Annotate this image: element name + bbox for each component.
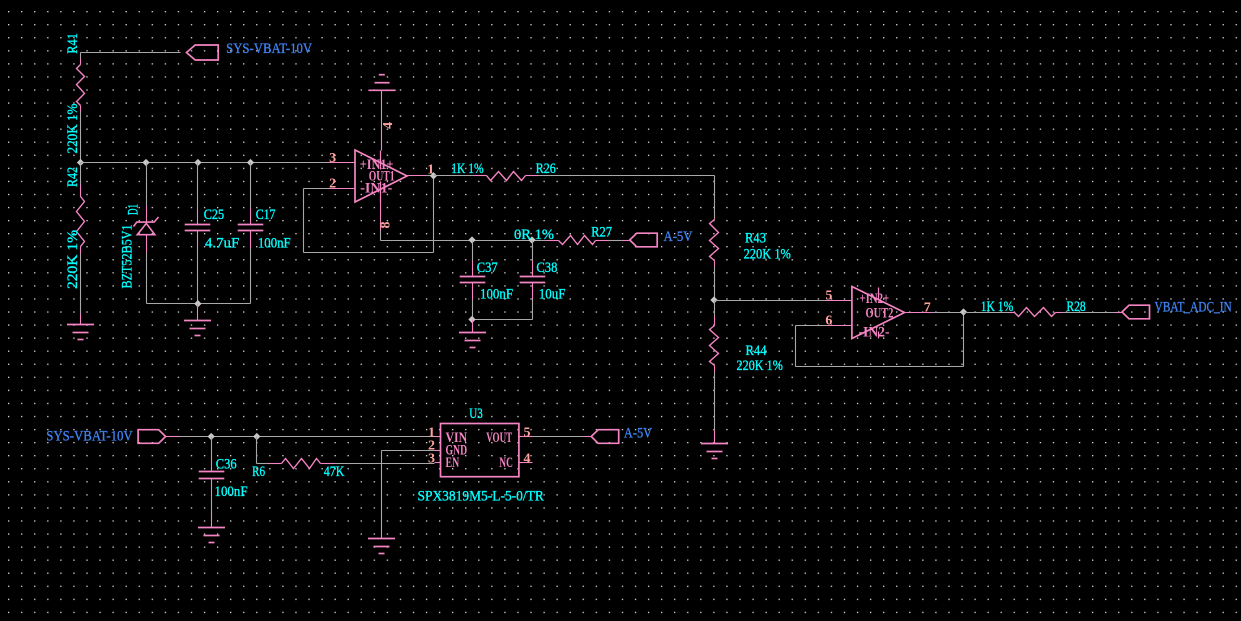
svg-text:4: 4 [381,122,396,129]
svg-text:SYS-VBAT-10V: SYS-VBAT-10V [46,428,133,444]
wire out1 to R26 [434,175,474,177]
U3 pin 5 [519,436,533,438]
svg-text:47K: 47K [324,464,345,480]
wire R28 to flag [1063,312,1115,314]
ground U3 [368,539,395,554]
svg-text:SPX3819M5-L-5-0/TR: SPX3819M5-L-5-0/TR [418,489,544,505]
power flag A-5V [630,233,658,247]
svg-text:220K 1%: 220K 1% [737,358,783,374]
svg-text:0R 1%: 0R 1% [514,227,554,243]
wire R27 to flag [609,240,623,242]
pin 4 [381,123,383,151]
U3 pin 2 [435,450,441,452]
svg-text:R44: R44 [746,343,767,359]
svg-text:1K 1%: 1K 1% [981,299,1014,315]
U3 pin 4 [519,462,533,464]
svg-text:VBAT_ADC_IN: VBAT_ADC_IN [1155,299,1232,315]
svg-text:4: 4 [524,452,531,467]
svg-text:8: 8 [379,222,394,229]
svg-text:VOUT: VOUT [486,430,512,446]
ground C25 [184,321,211,336]
power flag SYS-VBAT-10V bottom [138,430,166,444]
svg-text:R41: R41 [65,33,81,54]
junction out1 [430,173,436,179]
wire VBAT to flag [81,52,181,54]
junction C25 [195,159,201,165]
capacitor C37 [472,241,474,261]
wire out2 to R28 [964,312,1009,314]
svg-text:220K 1%: 220K 1% [65,104,81,154]
pin 7 [905,312,933,314]
svg-text:7: 7 [924,300,931,315]
resistor R42 [80,163,82,185]
wire feedback U1A [304,188,329,190]
svg-text:C25: C25 [204,207,224,223]
svg-text:-IN1-: -IN1- [360,181,392,197]
svg-text:R6: R6 [252,464,265,480]
power flag VBAT_ADC_IN [1122,305,1150,319]
svg-text:R42: R42 [65,167,81,187]
ground C37 [459,333,486,348]
resistor R43 [714,219,716,220]
wire flag to U3 [166,436,180,438]
junction C38 top [529,237,535,243]
junction C37 top [469,237,475,243]
svg-text:EN: EN [446,455,460,471]
svg-text:SYS-VBAT-10V: SYS-VBAT-10V [226,41,312,57]
svg-text:220K 1%: 220K 1% [65,230,81,289]
capacitor C25 [197,163,199,209]
pin 3 [329,162,355,164]
junction R6 [254,433,260,439]
pin 2 [329,188,355,190]
wire bottom rail [147,303,251,305]
svg-text:2: 2 [329,177,336,192]
svg-text:C37: C37 [477,260,498,276]
IC U3 box [441,424,519,477]
wire pin2 to ground [382,450,435,452]
svg-text:100nF: 100nF [258,235,291,251]
junction D1 [143,159,149,165]
junction C36 [208,433,214,439]
U3 pin 1 [435,436,441,438]
diode D1 zener [146,163,148,206]
wire R26 to rail [539,175,715,177]
junction out2 [960,309,966,315]
svg-text:C36: C36 [216,457,237,473]
svg-text:1K 1%: 1K 1% [451,161,484,177]
svg-text:3: 3 [428,452,435,467]
pin 1 [407,175,426,177]
junction caps ground [469,316,475,322]
svg-text:R26: R26 [536,161,557,177]
resistor R28 [1009,312,1015,314]
ground C25 stem [197,304,199,321]
pin 5 [827,300,852,302]
pin 6 [827,325,852,327]
svg-text:R27: R27 [591,225,612,241]
svg-text:R43: R43 [745,231,766,247]
pin 8 [380,203,382,231]
U3 pin 3 [435,462,441,464]
svg-text:BZT52B5V1: BZT52B5V1 [120,225,136,289]
svg-text:3: 3 [329,151,336,166]
svg-text:-IN2-: -IN2- [859,325,890,341]
svg-text:OUT2: OUT2 [866,305,894,321]
wire caps bottom rail [473,319,533,321]
resistor R27 [547,240,559,242]
junction C17 [247,159,253,165]
resistor R6 [256,437,258,464]
svg-text:C38: C38 [536,260,557,276]
svg-text:D1: D1 [126,204,142,215]
capacitor C36 [211,437,213,458]
capacitor C17 [250,163,252,209]
junction at R41/R42 [77,159,83,165]
svg-text:220K 1%: 220K 1% [744,247,791,263]
svg-text:A-5V: A-5V [664,229,693,245]
ground R44 [701,444,728,459]
resistor R26 [474,175,487,177]
resistor R41 [80,53,82,59]
wire VOUT to flag [533,436,585,438]
capacitor C38 [532,241,534,261]
junction bottom rail [195,301,201,307]
op-amp U1B triangle [852,287,905,339]
power flag A-5V out [591,430,619,444]
ground R42 [67,325,94,340]
svg-text:NC: NC [499,455,513,471]
wire divider to pin5 [715,300,827,302]
svg-text:U3: U3 [469,406,483,422]
junction divider mid [711,297,717,303]
resistor R44 [714,301,716,317]
svg-text:6: 6 [825,314,832,329]
svg-text:4.7uF: 4.7uF [205,235,239,251]
wire pin8 to A-5V rail [380,231,382,241]
ground C37 stem [472,320,474,333]
svg-text:5: 5 [825,288,832,303]
svg-text:C17: C17 [256,207,276,223]
power bar pin4 [368,75,395,91]
wire main rail [81,162,329,164]
svg-text:100nF: 100nF [215,484,248,500]
wire pin4 [381,104,383,123]
svg-text:10uF: 10uF [539,287,566,303]
ground C36 [198,528,225,543]
op-amp U1A triangle [355,150,407,202]
power flag SYS-VBAT-10V [187,45,219,60]
svg-text:100nF: 100nF [480,287,513,303]
wire feedback U1B [796,325,827,327]
svg-text:5: 5 [524,426,531,441]
svg-text:A-5V: A-5V [624,426,652,442]
